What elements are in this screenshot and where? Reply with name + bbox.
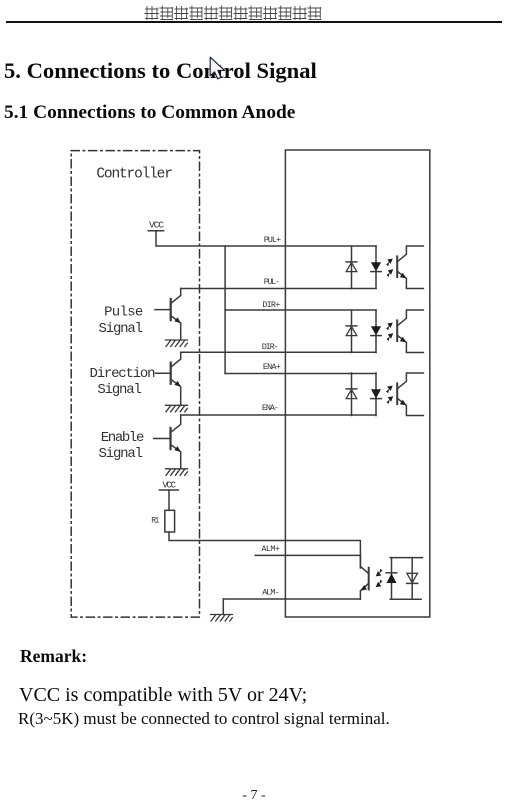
remark line 1 [19,685,307,705]
svg-text:PUL+: PUL+ [264,235,281,245]
svg-text:ENA+: ENA+ [263,362,281,372]
svg-text:Pulse: Pulse [104,305,143,321]
wire R1 to opto U4 anode [169,532,360,568]
ground (direction) [166,405,188,412]
light arrows [386,259,393,277]
ground (pulse) [166,340,188,347]
diode D (outline, anode down) [346,261,357,263]
optocoupler U4 (ALM, mirrored) [360,555,422,599]
header company text (CJK placeholder glyphs) [145,6,321,20]
wire ALM- to ground [222,599,224,615]
page heading h2 [4,103,295,122]
svg-text:Signal: Signal [99,321,144,337]
svg-text:Signal: Signal [99,446,144,462]
input loop [390,558,422,600]
wire DIR+ rail [225,309,376,311]
svg-text:ALM+: ALM+ [261,544,280,554]
svg-text:DIR+: DIR+ [262,300,280,310]
svg-text:VCC: VCC [149,219,164,230]
LED (filled, cathode up) [386,572,397,574]
optocoupler U1 (PUL) [346,246,423,289]
resistor R1 [165,510,175,532]
diode (outline, anode up) [407,573,418,582]
svg-text:Controller: Controller [96,167,172,183]
remark line 2 [18,710,390,727]
svg-text:DIR-: DIR- [262,342,279,352]
wire ALM- rail [223,598,360,600]
svg-text:ENA-: ENA- [262,403,279,413]
header rule [6,21,502,23]
wire ENA- rail [181,414,376,416]
svg-text:R1: R1 [151,517,159,526]
wire DIR- rail [181,351,376,353]
mouse cursor [210,57,225,79]
svg-text:Direction: Direction [90,366,156,382]
wire PUL- rail [181,288,376,290]
svg-text:VCC: VCC [163,481,177,491]
svg-text:Signal: Signal [97,382,141,398]
drive box [285,150,429,617]
wire VCC stem to PUL+ rail [156,231,376,246]
transistor Q3 (enable) [154,415,181,468]
phototransistor [368,568,370,590]
optocoupler U3 (ENA) [346,373,423,416]
svg-text:PUL-: PUL- [264,277,280,287]
ground (enable) [166,469,188,476]
wire ALM+ rail [255,554,360,556]
VCC terminal bar (R1) [159,489,178,491]
page heading h1 [4,60,317,83]
phototransistor [396,256,398,277]
wire VCC to R1 [168,490,170,510]
svg-text:Enable: Enable [101,430,145,446]
remark heading [20,648,87,666]
wire common anode bus [224,246,226,374]
input loop verticals [352,246,377,289]
footer page number [0,789,508,803]
optocoupler U2 (DIR) [346,310,423,353]
light arrows [376,569,383,587]
svg-text:ALM-: ALM- [262,587,279,597]
ground (ALM) [211,615,233,622]
transistor Q2 (direction) [156,352,181,404]
LED (filled, cathode down) [371,262,381,271]
transistor Q1 (pulse) [155,289,181,340]
VCC terminal bar [148,230,163,232]
controller box (dash-dot) [71,151,199,617]
wire ENA+ rail [225,373,376,375]
